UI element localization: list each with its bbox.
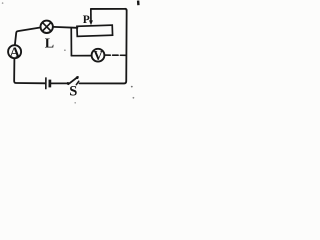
wire: right rail down to bottom-right corner and left to switch: [79, 10, 126, 83]
scan artifact: dark dash at top right edge: [137, 1, 140, 6]
rheostat R1 body: [77, 25, 113, 36]
wire: battery to switch: [51, 82, 68, 84]
wire: voltmeter right lead to right rail: [105, 54, 127, 56]
node: voltmeter tap junction: [70, 28, 72, 56]
svg-text:A: A: [10, 45, 21, 61]
voltmeter V1 circle: [92, 49, 105, 62]
ammeter A1 circle: [8, 45, 21, 58]
svg-text:V: V: [93, 48, 103, 63]
svg-text:L: L: [45, 37, 54, 52]
lamp L1 circle: [41, 21, 53, 33]
battery positive plate (long): [45, 77, 47, 89]
scan speck top left: [2, 2, 4, 4]
scan speck below bottom-right corner: [131, 86, 133, 88]
scan speck near lamp label: [64, 49, 66, 51]
rheostat wiper arrowhead: [89, 20, 93, 25]
wire: wiper top horizontal to top-right corner: [91, 9, 127, 11]
wire: lamp right to rheostat left (through node): [53, 26, 77, 29]
wire: ammeter bottom to bottom-left corner then right to battery: [14, 59, 45, 83]
wire: left rail from top-left corner down to ammeter: [15, 28, 40, 45]
scan speck bottom right: [133, 97, 135, 99]
switch S blade: [68, 77, 78, 84]
lamp L1 cross: [43, 23, 51, 31]
scan speck bottom center: [74, 102, 76, 104]
switch S left contact: [67, 82, 70, 85]
battery negative plate (short thick): [48, 80, 51, 88]
wire: voltmeter left lead: [71, 55, 91, 57]
svg-text:S: S: [69, 84, 77, 100]
rheostat wiper stem: [90, 9, 92, 21]
switch S blade end knob: [76, 76, 79, 79]
switch S right contact tick: [76, 81, 79, 85]
svg-text:P: P: [83, 14, 90, 26]
